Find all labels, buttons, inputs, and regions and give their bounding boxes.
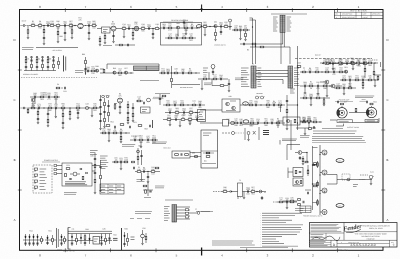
power amp label	[335, 99, 353, 102]
graphic eq label	[153, 96, 164, 99]
mains input prongs	[34, 168, 38, 189]
speaker note text	[355, 96, 374, 98]
heater row group 2	[45, 230, 56, 246]
center tall box	[201, 130, 218, 168]
grid stoppers 3	[317, 199, 319, 206]
ribbon connector P1	[280, 15, 285, 32]
drive ladder 1	[37, 108, 39, 124]
cathode drop 1	[43, 26, 45, 45]
preamp stage V1A chain	[29, 20, 77, 29]
power supply label	[42, 159, 60, 162]
reverb driver board outline	[161, 23, 202, 46]
mid label row	[152, 142, 167, 144]
zone letters	[14, 38, 389, 222]
J3 risers	[250, 18, 257, 64]
mid cluster 3 wire	[135, 166, 160, 183]
mid block wire row B	[165, 107, 200, 116]
power transformer connector	[172, 205, 177, 223]
right top bus dashes	[295, 54, 372, 59]
power transformer connector label	[165, 199, 193, 201]
mid upper cluster 1	[100, 128, 130, 143]
heater rails	[68, 231, 112, 233]
pi box 2	[293, 178, 303, 186]
heater row group 3	[59, 234, 67, 246]
drive ladder 2	[47, 108, 49, 127]
row2 left stage	[198, 65, 243, 92]
channel divider dashed line	[21, 77, 97, 79]
heater mid wire	[68, 239, 112, 241]
regulator contents	[65, 164, 88, 180]
reverb pots	[256, 92, 265, 99]
center fold mark	[200, 5, 203, 256]
mid block stage V4B	[114, 93, 123, 114]
J3 labels left	[241, 68, 249, 86]
supply bottom text	[64, 193, 77, 195]
heater row group 5	[71, 228, 111, 247]
pi box 1	[288, 168, 303, 179]
pi board wire	[280, 140, 300, 160]
drive channel chain	[27, 103, 100, 120]
input label small	[22, 48, 34, 50]
pi bottom cluster	[273, 197, 304, 211]
mains connector bits	[54, 165, 62, 175]
mid text column	[100, 156, 108, 169]
row2 vertical element x85	[82, 53, 87, 75]
fx return wire	[200, 122, 222, 124]
drop C12	[152, 29, 154, 39]
pi stage	[295, 151, 308, 165]
driver right row	[340, 75, 378, 89]
right mid cluster	[300, 93, 330, 106]
J3 header text	[252, 62, 254, 65]
grid stoppers 1	[313, 161, 319, 168]
stage cluster Q1/Q2 stacked	[97, 21, 120, 46]
mid chain to reverb driver	[120, 21, 160, 33]
internal speaker jack	[337, 101, 353, 123]
driver note oval	[196, 25, 201, 28]
plate drop	[88, 27, 90, 40]
title block	[309, 223, 397, 248]
mains labels	[40, 169, 47, 189]
drive ladder 3	[62, 108, 64, 129]
tube V9	[320, 188, 327, 193]
channel divider label	[23, 73, 38, 76]
heater pause bars	[113, 234, 118, 241]
heater bottom text	[57, 250, 109, 251]
row2 vertical x171	[171, 66, 173, 88]
cathode drop 2	[57, 27, 63, 43]
footswitch jacks row	[24, 56, 66, 72]
numbered notes list	[240, 213, 303, 248]
speaker jack label 2	[360, 98, 368, 101]
upper right board box	[278, 116, 312, 128]
mid block ladders	[99, 95, 110, 130]
bottom center text block	[212, 241, 255, 245]
bus to power connector	[256, 71, 288, 85]
speaker bottom label	[347, 126, 359, 129]
external speaker jack	[365, 101, 378, 122]
mid block cluster mid	[136, 96, 150, 113]
cathode drop 4	[71, 26, 73, 39]
tube label oval 1	[336, 159, 344, 163]
mid left edge parts	[132, 161, 135, 169]
output tube bus	[320, 145, 321, 215]
P1 wires down	[214, 32, 297, 64]
reverb driver stage U2	[160, 22, 200, 42]
connector J3 strip	[251, 66, 256, 88]
notes text upper right	[312, 128, 366, 142]
legend mini table	[100, 184, 124, 194]
grid stoppers 2	[317, 181, 319, 188]
heater bracket 2	[68, 228, 74, 250]
row2 bus wire	[155, 85, 200, 94]
bias pot cluster	[360, 171, 374, 185]
opto row circles	[100, 67, 134, 77]
input jack J2	[21, 107, 29, 109]
speaker wiring	[330, 108, 367, 126]
heater right cluster	[122, 228, 135, 251]
right lower bits	[300, 117, 322, 130]
drop R11	[132, 29, 134, 40]
pi top text	[282, 139, 297, 141]
row2 chain after box	[159, 68, 200, 75]
ptc wires right	[177, 207, 191, 219]
mini cluster at col edge	[84, 65, 99, 75]
driver vertical cap	[183, 19, 188, 28]
small clusters row2-row3 gap	[56, 83, 66, 93]
after triode	[85, 20, 97, 29]
triode V1A	[77, 17, 86, 29]
fx right vertical	[286, 89, 295, 130]
supply wire to mid	[92, 166, 100, 172]
small bits above notes	[238, 196, 297, 202]
mid block wire row A	[163, 100, 205, 109]
tube V8	[320, 170, 327, 175]
mid cluster 3 label	[164, 147, 171, 150]
top node circle	[229, 19, 232, 30]
mid upper text	[122, 135, 141, 147]
mid cluster 3 verticals	[137, 145, 143, 166]
pa feed vertical	[312, 146, 318, 210]
right top cluster B+ rail	[297, 58, 380, 70]
lower link wire	[103, 44, 135, 46]
small text left of notes	[300, 136, 310, 138]
grid resistor drop	[27, 26, 29, 39]
mid relay box	[172, 151, 201, 158]
tube label oval 2	[336, 204, 344, 208]
driver transistors	[320, 75, 381, 97]
pilot lamp cluster	[141, 227, 147, 245]
upper right small chain	[296, 126, 316, 135]
note line small left	[201, 211, 213, 213]
mid upper cluster 2	[130, 135, 158, 148]
supply top right labels	[90, 151, 98, 155]
tube V7	[320, 150, 327, 155]
mid block ladder 2	[127, 101, 134, 124]
tube V10	[320, 210, 327, 215]
power driver chain	[300, 66, 348, 76]
mid small cluster	[112, 157, 129, 170]
footswitch labels	[75, 71, 84, 73]
drive upper bits	[30, 92, 60, 105]
reverb enclosure box	[107, 64, 159, 69]
zone numbers	[39, 5, 360, 258]
reverb driver section label	[163, 19, 193, 22]
input jack J1	[21, 20, 30, 27]
mid vertical x160	[159, 94, 166, 105]
supply right column 1	[90, 153, 96, 194]
bus wire row1	[36, 48, 78, 52]
driver drops	[178, 28, 187, 36]
dash-dot row mid	[222, 125, 269, 141]
cathode drop 3	[64, 27, 66, 41]
heater bracket 1	[57, 228, 59, 248]
mid block bottom bits	[106, 120, 152, 131]
driver mid bits	[334, 83, 356, 95]
fx oval label 1	[243, 102, 249, 106]
mini table above title block	[300, 206, 311, 213]
fx upper chain	[240, 100, 285, 112]
J3 labels right	[258, 68, 262, 86]
long vertical bus	[287, 58, 298, 130]
mid block right box	[198, 110, 206, 122]
mid block wire row C	[163, 114, 205, 127]
left small caption	[196, 211, 210, 213]
fx send wire	[200, 109, 222, 111]
power driver top row	[320, 57, 378, 80]
mains text rows	[130, 212, 152, 219]
driver lower row	[300, 81, 332, 95]
sheet note under title block	[336, 249, 348, 252]
pa board left edge	[290, 120, 292, 150]
regulator board box	[62, 163, 92, 186]
caption above title block	[303, 215, 323, 218]
stage cluster V2 area	[200, 21, 232, 41]
ot wiring	[327, 174, 372, 187]
fx lower cluster	[222, 118, 285, 127]
reverb tank label	[140, 80, 159, 82]
ptc right bits	[190, 208, 200, 215]
power transformer dashed box	[33, 165, 52, 193]
reverb tank coil	[134, 66, 160, 71]
J4 labels right	[294, 68, 300, 86]
regulator text rows	[65, 182, 87, 185]
aux cluster right of V2	[232, 25, 250, 41]
ribbon connector P1 label	[271, 13, 307, 15]
choke chain	[213, 179, 267, 199]
drive stage transistor	[31, 98, 35, 108]
heater row group 1	[23, 230, 44, 247]
pi right bits	[305, 165, 311, 194]
supply right column 2	[99, 160, 101, 192]
connector J4 strip	[288, 66, 293, 88]
ptc labels left	[164, 207, 170, 221]
drop R13	[123, 30, 125, 38]
revisions table	[334, 9, 383, 18]
P1 pin labels left	[273, 17, 278, 31]
P1 pin labels right	[287, 17, 292, 31]
fx opamp box U4	[222, 95, 240, 112]
mid cluster 3 lower	[143, 182, 164, 198]
speaker long wire	[353, 118, 380, 123]
